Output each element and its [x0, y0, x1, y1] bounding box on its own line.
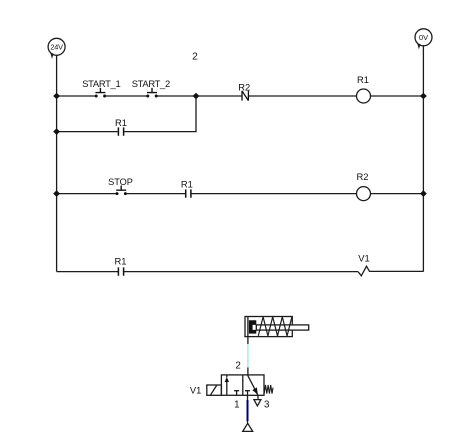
svg-text:24V: 24V: [50, 42, 63, 51]
svg-text:2: 2: [192, 52, 198, 63]
svg-text:V1: V1: [190, 384, 201, 395]
svg-text:R1: R1: [115, 256, 127, 267]
svg-text:R1: R1: [357, 74, 369, 85]
svg-text:2: 2: [235, 361, 240, 372]
svg-text:R1: R1: [181, 179, 193, 190]
svg-text:R2: R2: [357, 171, 369, 182]
svg-text:START_1: START_1: [82, 78, 120, 89]
svg-text:3: 3: [264, 400, 270, 411]
svg-text:STOP: STOP: [108, 177, 133, 187]
svg-text:R2: R2: [238, 81, 250, 92]
svg-text:START_2: START_2: [132, 78, 170, 89]
svg-text:0V: 0V: [419, 33, 428, 42]
svg-text:1: 1: [234, 400, 239, 411]
svg-text:R1: R1: [115, 117, 127, 128]
svg-text:V1: V1: [358, 253, 369, 264]
